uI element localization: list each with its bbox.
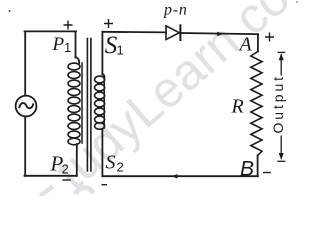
svg-text:R: R: [231, 96, 244, 118]
svg-text:2: 2: [117, 159, 124, 174]
svg-text:2: 2: [62, 161, 69, 176]
svg-text:p-n: p-n: [163, 2, 188, 19]
svg-text:1: 1: [117, 42, 124, 57]
svg-text:A: A: [238, 34, 253, 56]
svg-text:B: B: [240, 158, 254, 181]
svg-text:P: P: [52, 34, 65, 55]
svg-text:1: 1: [64, 40, 71, 55]
svg-text:Output: Output: [270, 74, 286, 133]
svg-text:S: S: [106, 152, 116, 174]
